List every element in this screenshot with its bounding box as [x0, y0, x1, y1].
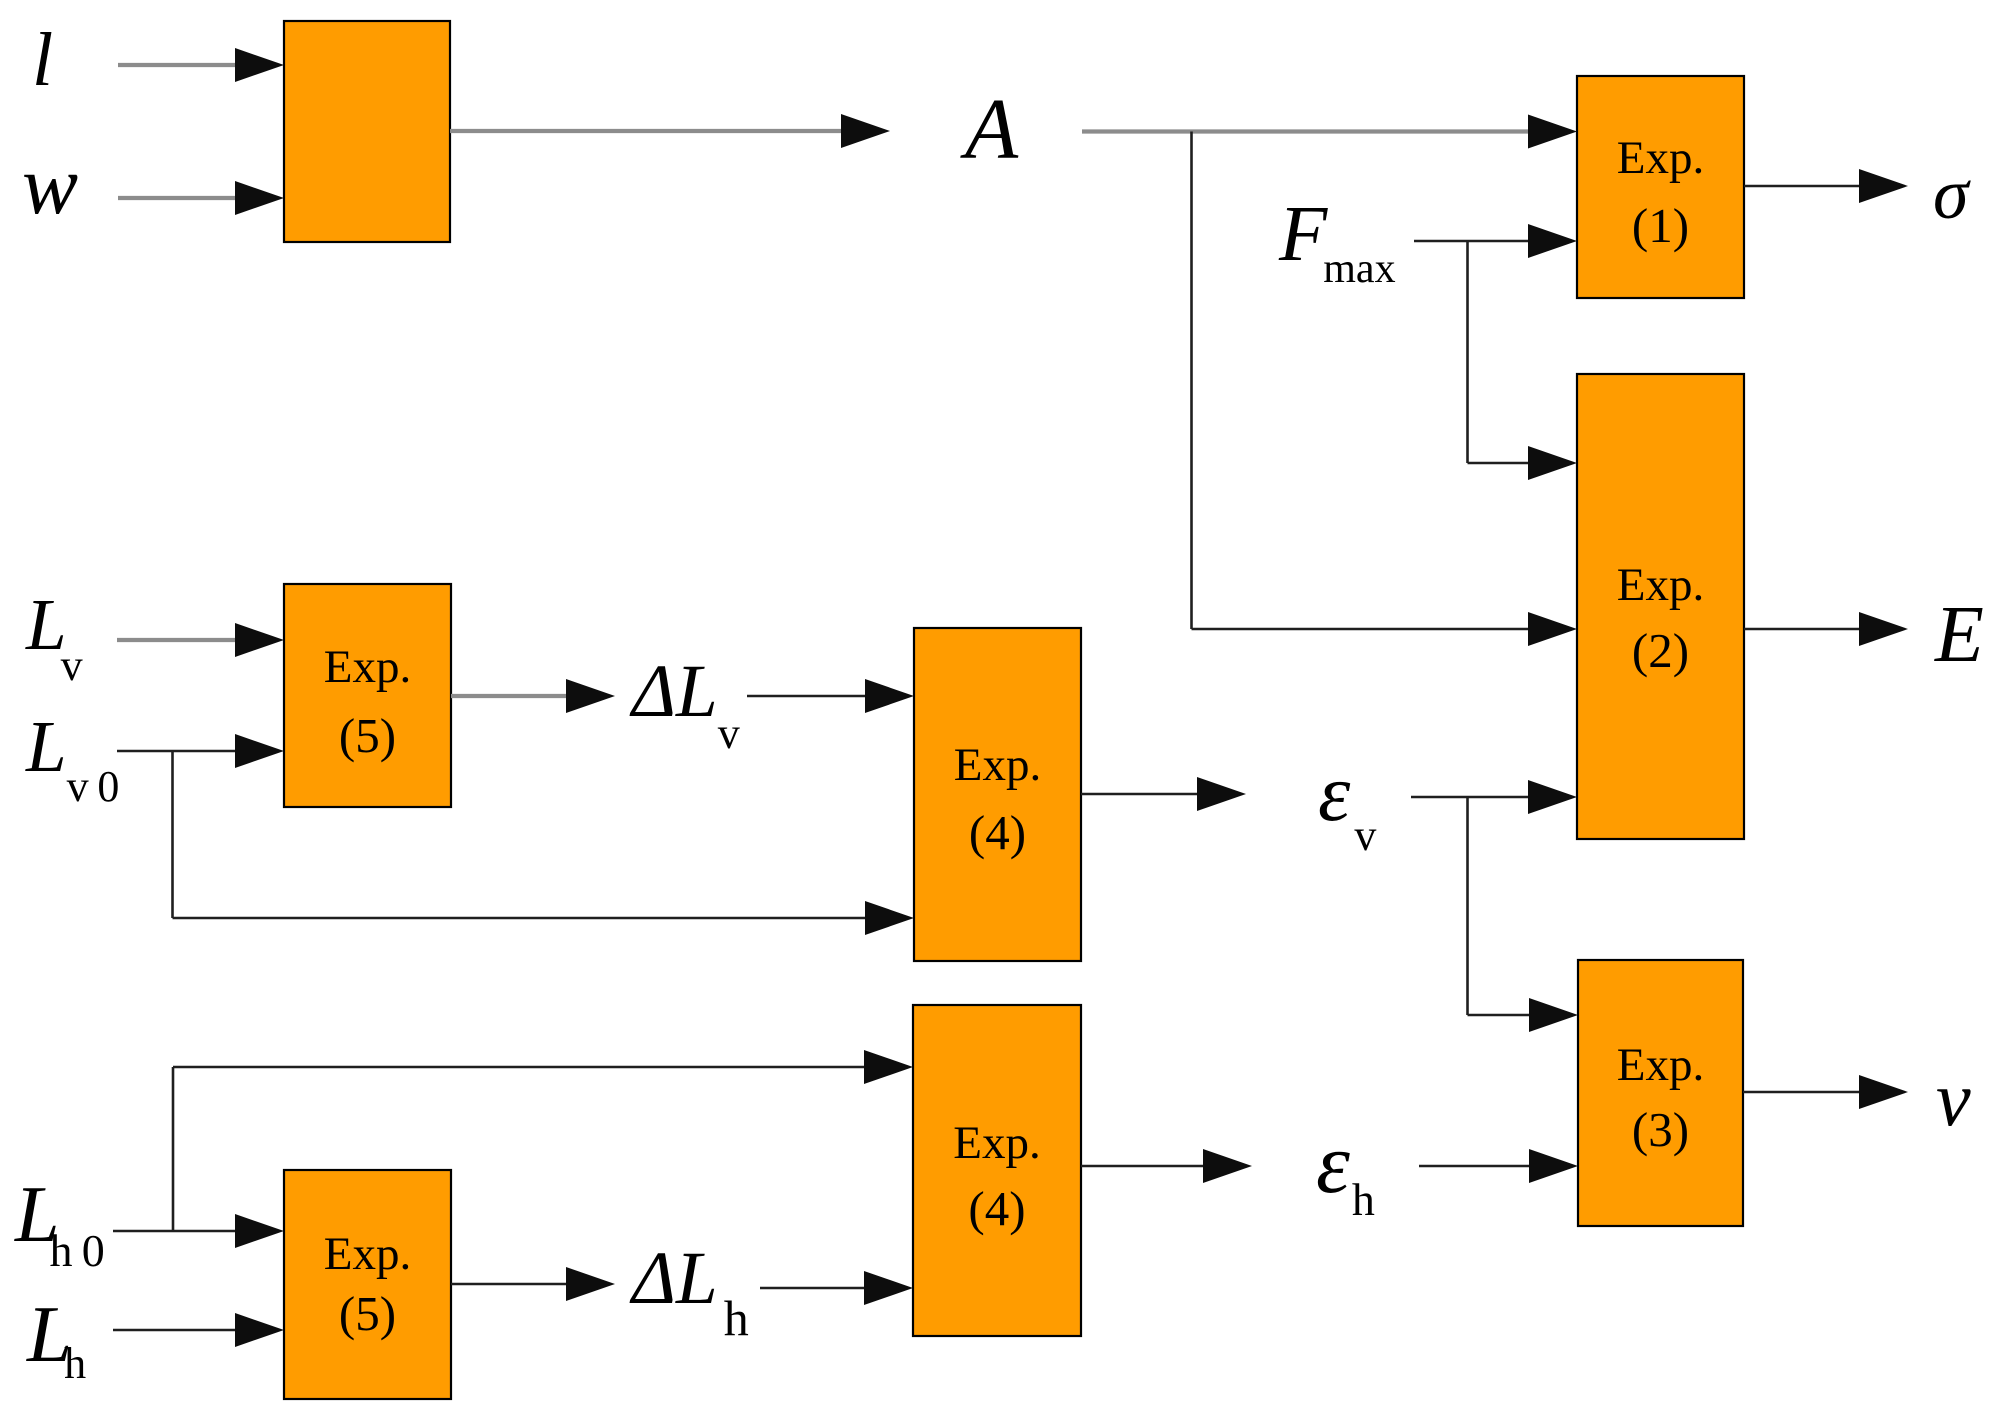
svg-text:A: A [960, 80, 1019, 177]
svg-text:Exp.: Exp. [1617, 559, 1704, 611]
svg-text:Exp.: Exp. [324, 641, 411, 693]
svg-text:E: E [1934, 591, 1984, 679]
svg-text:(5): (5) [339, 708, 396, 763]
svg-text:Exp.: Exp. [954, 739, 1041, 791]
svg-text:Exp.: Exp. [324, 1228, 411, 1280]
svg-text:(5): (5) [339, 1286, 396, 1341]
svg-text:Exp.: Exp. [953, 1117, 1040, 1169]
svg-text:ν: ν [1936, 1055, 1971, 1142]
svg-text:Exp.: Exp. [1617, 1039, 1704, 1091]
svg-text:(4): (4) [968, 1181, 1025, 1236]
svg-text:w: w [22, 139, 78, 232]
svg-text:σ: σ [1933, 154, 1971, 234]
svg-text:(2): (2) [1632, 623, 1689, 678]
svg-text:(4): (4) [969, 805, 1026, 860]
svg-text:Exp.: Exp. [1617, 132, 1704, 184]
svg-text:l: l [32, 18, 53, 102]
svg-text:(3): (3) [1632, 1102, 1689, 1157]
svg-text:(1): (1) [1632, 198, 1689, 253]
